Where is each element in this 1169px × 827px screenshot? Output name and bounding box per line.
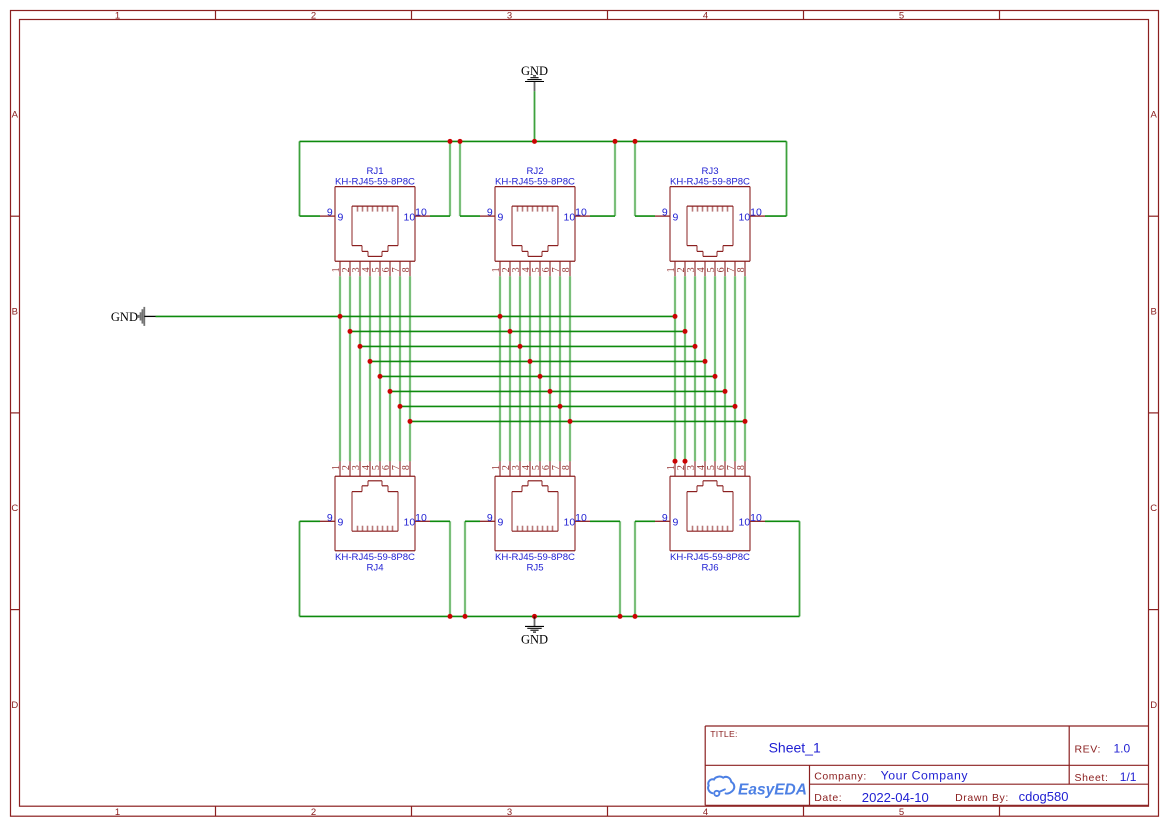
RJ2 body <box>495 186 575 188</box>
wire: RJ4 pin9 drop <box>299 521 301 616</box>
svg-text:9: 9 <box>337 516 343 528</box>
svg-text:8: 8 <box>736 267 747 272</box>
wire: top GND stem <box>534 91 536 141</box>
junction <box>548 389 553 394</box>
svg-text:B: B <box>12 306 18 317</box>
junction <box>378 374 383 379</box>
junction <box>528 359 533 364</box>
svg-text:10: 10 <box>739 516 751 528</box>
RJ3 pin 9 <box>655 215 670 217</box>
junction <box>388 389 393 394</box>
RJ1 body <box>335 186 415 188</box>
svg-text:10: 10 <box>575 512 587 524</box>
wire: RJ2-RJ5 pin5 vertical <box>539 276 541 461</box>
svg-text:9: 9 <box>327 207 333 219</box>
wire: RJ2-RJ5 pin8 vertical <box>569 276 571 461</box>
RJ3 pin 10 <box>750 215 765 217</box>
svg-text:3: 3 <box>507 10 512 21</box>
wire: RJ2-RJ5 pin4 vertical <box>529 276 531 461</box>
svg-text:A: A <box>1151 110 1158 121</box>
wire: net pin1 horizontal bus <box>156 315 676 317</box>
svg-text:RJ6: RJ6 <box>701 562 718 573</box>
RJ5 pins 1-8 <box>499 461 501 476</box>
junction <box>683 329 688 334</box>
svg-text:D: D <box>11 700 18 711</box>
RJ1 jack outline <box>352 205 398 207</box>
svg-text:Sheet:: Sheet: <box>1075 772 1109 784</box>
svg-text:A: A <box>12 110 19 121</box>
svg-text:10: 10 <box>404 516 416 528</box>
wire: RJ3-RJ6 pin4 vertical <box>704 276 706 461</box>
svg-text:8: 8 <box>561 465 572 470</box>
svg-text:9: 9 <box>672 516 678 528</box>
wire: RJ1-RJ4 pin8 vertical <box>409 276 411 461</box>
ground flag GND (left) <box>111 307 156 326</box>
junction <box>558 404 563 409</box>
svg-text:RJ1: RJ1 <box>366 166 383 177</box>
svg-text:RJ2: RJ2 <box>526 166 543 177</box>
junction <box>618 614 623 619</box>
svg-text:2022-04-10: 2022-04-10 <box>862 790 929 805</box>
svg-text:9: 9 <box>487 512 493 524</box>
RJ5 jack outline <box>512 530 558 532</box>
junction <box>683 459 688 464</box>
svg-text:10: 10 <box>750 512 762 524</box>
EasyEDA logo <box>708 777 807 799</box>
RJ4 body <box>335 475 415 477</box>
junction <box>508 329 513 334</box>
wire: RJ2 pin9 riser <box>459 141 461 216</box>
RJ6 pin 9 <box>655 520 670 522</box>
wire: RJ2-RJ5 pin6 vertical <box>549 276 551 461</box>
junction <box>568 419 573 424</box>
RJ1 pin 9 <box>320 215 335 217</box>
junction <box>408 419 413 424</box>
svg-text:10: 10 <box>575 207 587 219</box>
RJ1 jack contacts <box>357 206 359 212</box>
RJ2 pins 1-8 <box>499 261 501 276</box>
junction <box>463 614 468 619</box>
junction <box>458 139 463 144</box>
wire: RJ1 pin10 riser <box>449 141 451 216</box>
RJ1 pins 1-8 <box>339 261 341 276</box>
RJ6 jack contacts <box>692 526 694 532</box>
RJ2 pin 9 <box>480 215 495 217</box>
RJ4 pin 10 <box>415 520 430 522</box>
junction <box>713 374 718 379</box>
svg-text:B: B <box>1151 306 1157 317</box>
svg-text:1: 1 <box>115 10 120 21</box>
svg-text:8: 8 <box>401 267 412 272</box>
junction <box>673 459 678 464</box>
wire: RJ1-RJ4 pin6 vertical <box>389 276 391 461</box>
RJ3 jack outline <box>687 205 733 207</box>
wire: RJ1-RJ4 pin3 vertical <box>359 276 361 461</box>
wire: RJ2-RJ5 pin3 vertical <box>519 276 521 461</box>
RJ3 pins 1-8 <box>674 261 676 276</box>
wire: RJ3-RJ6 pin1 vertical <box>674 276 676 461</box>
svg-text:RJ3: RJ3 <box>701 166 718 177</box>
junction <box>498 314 503 319</box>
svg-text:9: 9 <box>337 211 343 223</box>
svg-text:4: 4 <box>703 807 708 818</box>
junction <box>448 614 453 619</box>
svg-text:GND: GND <box>521 632 548 646</box>
svg-text:9: 9 <box>662 512 668 524</box>
junction <box>633 614 638 619</box>
junction <box>743 419 748 424</box>
wire: net pin6 horizontal bus <box>390 390 725 392</box>
svg-text:10: 10 <box>750 207 762 219</box>
svg-text:EasyEDA: EasyEDA <box>738 782 807 799</box>
svg-text:Your Company: Your Company <box>881 769 969 783</box>
junction <box>703 359 708 364</box>
svg-text:10: 10 <box>739 211 751 223</box>
RJ5 pin 9 <box>480 520 495 522</box>
svg-text:9: 9 <box>497 211 503 223</box>
svg-text:KH-RJ45-59-8P8C: KH-RJ45-59-8P8C <box>670 176 750 187</box>
svg-text:9: 9 <box>327 512 333 524</box>
wire: top shield bus <box>300 140 787 142</box>
wire: RJ3-RJ6 pin2 vertical <box>684 276 686 461</box>
ground flag GND (bottom) <box>521 616 548 646</box>
wire: RJ6 pin10 drop <box>799 521 801 616</box>
junction <box>348 329 353 334</box>
svg-text:TITLE:: TITLE: <box>710 729 737 739</box>
svg-text:8: 8 <box>401 465 412 470</box>
wire: net pin5 horizontal bus <box>380 375 715 377</box>
wire: RJ2-RJ5 pin1 vertical <box>499 276 501 461</box>
svg-text:C: C <box>1150 503 1157 514</box>
wire: net pin2 horizontal bus <box>350 330 685 332</box>
RJ6 jack outline <box>687 530 733 532</box>
svg-text:10: 10 <box>564 211 576 223</box>
RJ2 jack outline <box>512 205 558 207</box>
RJ1 pin 10 <box>415 215 430 217</box>
wire: RJ2 pin10 riser <box>614 141 616 216</box>
svg-text:8: 8 <box>561 267 572 272</box>
wire: RJ3-RJ6 pin5 vertical <box>714 276 716 461</box>
wire: RJ3-RJ6 pin3 vertical <box>694 276 696 461</box>
RJ2 pin 10 <box>575 215 590 217</box>
wire: net pin4 horizontal bus <box>370 360 705 362</box>
junction <box>633 139 638 144</box>
svg-text:9: 9 <box>487 207 493 219</box>
junction <box>613 139 618 144</box>
wire: RJ3-RJ6 pin7 vertical <box>734 276 736 461</box>
svg-text:5: 5 <box>899 807 904 818</box>
svg-text:10: 10 <box>564 516 576 528</box>
junction <box>398 404 403 409</box>
RJ6 pins 1-8 <box>674 461 676 476</box>
svg-text:Sheet_1: Sheet_1 <box>769 740 821 756</box>
junction <box>532 614 537 619</box>
svg-text:cdog580: cdog580 <box>1019 789 1069 804</box>
RJ5 pin 10 <box>575 520 590 522</box>
svg-text:RJ5: RJ5 <box>526 562 543 573</box>
junction <box>368 359 373 364</box>
wire: RJ5 pin9 riser <box>464 521 466 616</box>
svg-text:9: 9 <box>662 207 668 219</box>
RJ2 jack contacts <box>517 206 519 212</box>
junction <box>532 139 537 144</box>
svg-text:Date:: Date: <box>814 792 842 804</box>
wire: net pin7 horizontal bus <box>400 405 735 407</box>
svg-text:GND: GND <box>111 310 138 324</box>
RJ45 connector RJ6 (KH-RJ45-59-8P8C) <box>655 461 765 573</box>
RJ45 connector RJ1 (KH-RJ45-59-8P8C) <box>320 166 430 276</box>
RJ45 connector RJ4 (KH-RJ45-59-8P8C) <box>320 461 430 573</box>
junction <box>518 344 523 349</box>
RJ6 pin 10 <box>750 520 765 522</box>
RJ4 jack contacts <box>357 526 359 532</box>
junction <box>733 404 738 409</box>
wire: RJ3 pin10 drop <box>786 141 788 216</box>
svg-text:KH-RJ45-59-8P8C: KH-RJ45-59-8P8C <box>335 176 415 187</box>
junction <box>358 344 363 349</box>
RJ3 jack contacts <box>692 206 694 212</box>
wire: RJ2-RJ5 pin7 vertical <box>559 276 561 461</box>
junction <box>448 139 453 144</box>
wire: RJ1-RJ4 pin1 vertical <box>339 276 341 461</box>
wire: RJ1-RJ4 pin5 vertical <box>379 276 381 461</box>
svg-text:1/1: 1/1 <box>1120 770 1137 784</box>
svg-text:4: 4 <box>703 10 708 21</box>
svg-text:10: 10 <box>415 512 427 524</box>
junction <box>673 314 678 319</box>
wire: RJ3-RJ6 pin6 vertical <box>724 276 726 461</box>
junction <box>338 314 343 319</box>
RJ4 jack outline <box>352 530 398 532</box>
wire: bottom shield bus <box>300 615 800 617</box>
junction <box>538 374 543 379</box>
svg-text:REV:: REV: <box>1075 744 1102 756</box>
wire: RJ1 pin9 drop <box>299 141 301 216</box>
svg-text:1: 1 <box>115 807 120 818</box>
svg-text:Drawn By:: Drawn By: <box>955 792 1009 804</box>
wire: RJ4 pin10 riser <box>449 521 451 616</box>
svg-text:5: 5 <box>899 10 904 21</box>
svg-text:3: 3 <box>507 807 512 818</box>
svg-text:9: 9 <box>497 516 503 528</box>
svg-text:1.0: 1.0 <box>1114 742 1131 756</box>
ground flag GND (top) <box>521 64 548 91</box>
RJ4 pin 9 <box>320 520 335 522</box>
RJ3 body <box>670 186 750 188</box>
wire: net pin3 horizontal bus <box>360 345 695 347</box>
svg-text:KH-RJ45-59-8P8C: KH-RJ45-59-8P8C <box>495 176 575 187</box>
wire: net pin8 horizontal bus <box>410 420 745 422</box>
wire: RJ6 pin9 riser <box>634 521 636 616</box>
RJ6 body <box>670 475 750 477</box>
svg-text:RJ4: RJ4 <box>366 562 384 573</box>
svg-text:2: 2 <box>311 10 316 21</box>
RJ5 jack contacts <box>517 526 519 532</box>
RJ45 connector RJ3 (KH-RJ45-59-8P8C) <box>655 166 765 276</box>
svg-text:C: C <box>11 503 18 514</box>
svg-text:Company:: Company: <box>814 770 867 782</box>
RJ4 pins 1-8 <box>339 461 341 476</box>
svg-text:D: D <box>1150 700 1157 711</box>
svg-text:8: 8 <box>736 465 747 470</box>
svg-text:9: 9 <box>672 211 678 223</box>
RJ45 connector RJ5 (KH-RJ45-59-8P8C) <box>480 461 590 573</box>
svg-text:2: 2 <box>311 807 316 818</box>
wire: RJ2-RJ5 pin2 vertical <box>509 276 511 461</box>
wire: RJ1-RJ4 pin7 vertical <box>399 276 401 461</box>
wire: RJ3-RJ6 pin8 vertical <box>744 276 746 461</box>
wire: RJ1-RJ4 pin2 vertical <box>349 276 351 461</box>
RJ5 body <box>495 475 575 477</box>
wire: RJ1-RJ4 pin4 vertical <box>369 276 371 461</box>
RJ45 connector RJ2 (KH-RJ45-59-8P8C) <box>480 166 590 276</box>
title block <box>705 726 1148 805</box>
wire: RJ3 pin9 riser <box>634 141 636 216</box>
wire: RJ5 pin10 riser <box>619 521 621 616</box>
svg-text:10: 10 <box>404 211 416 223</box>
svg-text:10: 10 <box>415 207 427 219</box>
junction <box>723 389 728 394</box>
junction <box>693 344 698 349</box>
